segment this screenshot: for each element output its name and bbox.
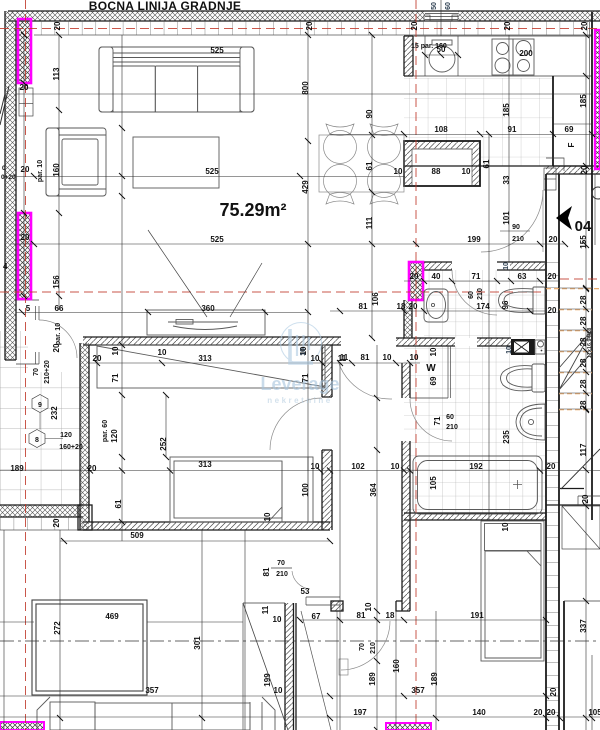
magenta hatch bottom — [386, 723, 431, 730]
svg-text:F: F — [567, 142, 576, 147]
svg-text:10: 10 — [501, 522, 510, 531]
bathtub — [413, 456, 542, 514]
orange dashed stair lines — [546, 289, 600, 410]
W niche wall — [410, 346, 451, 398]
svg-text:96: 96 — [501, 300, 510, 309]
svg-text:210: 210 — [276, 571, 288, 578]
svg-text:61: 61 — [114, 499, 123, 508]
svg-text:160+20: 160+20 — [59, 444, 83, 451]
svg-text:10: 10 — [263, 512, 272, 521]
svg-text:53: 53 — [301, 587, 310, 596]
svg-text:160: 160 — [52, 163, 61, 177]
svg-text:20: 20 — [548, 272, 557, 281]
svg-text:W: W — [426, 363, 436, 374]
tv leader lines — [148, 230, 262, 317]
bath south wall — [404, 513, 546, 520]
left wall jog with terrace door — [16, 300, 39, 364]
svg-text:20: 20 — [93, 354, 102, 363]
svg-text:20: 20 — [503, 21, 512, 30]
svg-text:20: 20 — [548, 306, 557, 315]
svg-text:60: 60 — [446, 414, 454, 421]
svg-text:28: 28 — [579, 379, 588, 388]
svg-text:28: 28 — [579, 316, 588, 325]
step mark 53 — [306, 597, 340, 605]
living-corridor door arc — [338, 361, 392, 399]
svg-text:18: 18 — [397, 302, 406, 311]
bottom-left door arc — [292, 571, 310, 589]
dining chairs — [324, 124, 357, 164]
kitchen island — [404, 141, 480, 186]
section marker circle — [592, 187, 600, 199]
svg-text:197: 197 — [353, 708, 367, 717]
svg-text:10: 10 — [391, 462, 400, 471]
svg-text:429: 429 — [301, 180, 310, 194]
corridor north wall segments / wc-bath wall — [396, 338, 511, 346]
svg-text:301: 301 — [193, 636, 202, 650]
svg-text:210: 210 — [477, 288, 484, 300]
svg-text:100: 100 — [301, 483, 310, 497]
svg-text:232: 232 — [50, 406, 59, 420]
svg-text:364: 364 — [369, 483, 378, 497]
svg-text:17x16,94/28: 17x16,94/28 — [587, 328, 593, 359]
watermark logo — [281, 323, 322, 364]
wc floor tiles — [424, 270, 545, 338]
svg-text:28: 28 — [579, 358, 588, 367]
svg-text:10: 10 — [506, 346, 513, 354]
svg-text:337: 337 — [579, 619, 588, 633]
bedroom south wall — [83, 522, 330, 530]
svg-text:101: 101 — [502, 211, 511, 225]
svg-text:313: 313 — [198, 460, 212, 469]
svg-text:117: 117 — [579, 443, 588, 456]
svg-text:69: 69 — [429, 376, 438, 385]
magenta column left 1 — [18, 19, 31, 83]
niche below column 1 — [19, 88, 33, 116]
svg-text:20: 20 — [549, 687, 558, 696]
kitchen east wall + fridge zone — [553, 12, 592, 166]
svg-text:10: 10 — [158, 348, 167, 357]
svg-text:525: 525 — [210, 235, 224, 244]
svg-text:33: 33 — [502, 175, 511, 184]
svg-text:71: 71 — [301, 373, 310, 382]
wall left of wc — [404, 300, 412, 338]
party wall with staircase — [546, 174, 559, 730]
svg-text:199: 199 — [263, 673, 272, 687]
svg-text:160: 160 — [392, 659, 401, 673]
bottom corridor door arc — [156, 333, 182, 359]
svg-text:469: 469 — [105, 612, 119, 621]
svg-text:81: 81 — [361, 353, 370, 362]
svg-text:189: 189 — [10, 464, 24, 473]
svg-text:20: 20 — [534, 708, 543, 717]
svg-text:Leverage: Leverage — [260, 374, 339, 394]
svg-text:70: 70 — [359, 643, 366, 651]
svg-text:252: 252 — [159, 437, 168, 451]
terrace tiles left — [0, 372, 83, 505]
svg-text:71: 71 — [111, 373, 120, 382]
svg-text:20: 20 — [549, 235, 558, 244]
svg-text:20: 20 — [581, 494, 590, 503]
svg-text:20: 20 — [88, 464, 97, 473]
svg-text:81: 81 — [359, 302, 368, 311]
svg-text:90: 90 — [512, 224, 520, 231]
svg-text:69: 69 — [565, 125, 574, 134]
svg-text:91: 91 — [508, 125, 517, 134]
svg-text:20: 20 — [20, 83, 29, 92]
svg-text:10: 10 — [364, 602, 373, 611]
corner cut diagonals — [0, 86, 9, 125]
bedroom east / corridor west wall — [322, 345, 332, 397]
corridor east wall segments — [396, 363, 410, 611]
kitchen floor tiles — [404, 78, 552, 166]
svg-text:par. 10: par. 10 — [37, 160, 44, 182]
svg-text:106: 106 — [371, 292, 380, 306]
terrace door arc — [39, 320, 77, 358]
kitchen counters outline — [413, 36, 592, 76]
svg-text:5: 5 — [26, 304, 31, 313]
wardrobe — [97, 345, 325, 388]
svg-text:525: 525 — [210, 46, 224, 55]
wc toilet — [499, 287, 546, 314]
svg-text:210: 210 — [512, 236, 524, 243]
svg-text:90: 90 — [365, 109, 374, 118]
top window in wall — [424, 14, 458, 22]
svg-text:20: 20 — [53, 21, 62, 30]
bedroom2 door arc — [341, 621, 390, 670]
svg-text:10: 10 — [111, 346, 120, 355]
entry north wall — [404, 158, 600, 190]
terrace couch bottom — [37, 697, 275, 730]
svg-text:10: 10 — [273, 615, 282, 624]
stair treads — [559, 288, 592, 409]
kitchen sink — [429, 40, 455, 72]
bath door arc — [410, 399, 452, 441]
svg-text:10: 10 — [274, 686, 283, 695]
svg-text:20: 20 — [52, 518, 61, 527]
centre axis dash-dot line — [0, 640, 600, 642]
svg-text:20: 20 — [21, 165, 30, 174]
svg-text:20: 20 — [410, 21, 419, 30]
svg-text:8: 8 — [35, 437, 39, 444]
svg-text:174: 174 — [476, 302, 490, 311]
svg-text:20: 20 — [305, 21, 314, 30]
svg-text:192: 192 — [469, 462, 483, 471]
svg-text:71: 71 — [472, 272, 481, 281]
left exterior wall (hatched) — [5, 11, 16, 360]
svg-text:200: 200 — [519, 49, 533, 58]
sofa — [99, 47, 254, 112]
svg-text:210+20: 210+20 — [44, 360, 51, 384]
svg-text:102: 102 — [351, 462, 365, 471]
right room top shape — [562, 506, 600, 549]
bedroom west wall — [80, 343, 89, 530]
svg-text:9: 9 — [38, 402, 42, 409]
svg-text:111: 111 — [365, 216, 374, 229]
svg-text:61: 61 — [482, 159, 491, 168]
svg-text:60: 60 — [445, 2, 452, 10]
svg-text:120: 120 — [110, 429, 119, 443]
armchair — [46, 128, 106, 196]
svg-text:10: 10 — [300, 348, 307, 356]
wc hand basin — [424, 289, 448, 322]
wc door arc — [452, 270, 497, 315]
washing machine (black) — [511, 339, 545, 355]
svg-text:800: 800 — [301, 81, 310, 95]
right room wall — [563, 601, 565, 730]
svg-text:0+20: 0+20 — [1, 174, 16, 181]
svg-text:357: 357 — [411, 686, 425, 695]
svg-text:nekretnine: nekretnine — [267, 396, 332, 405]
svg-text:75.29m²: 75.29m² — [219, 200, 286, 220]
magenta strip right edge — [595, 30, 600, 169]
svg-text:199: 199 — [467, 235, 481, 244]
svg-text:71: 71 — [433, 416, 442, 425]
svg-text:40: 40 — [432, 272, 441, 281]
svg-text:185: 185 — [502, 103, 511, 117]
svg-text:357: 357 — [145, 686, 159, 695]
magenta column left 2 — [18, 213, 31, 299]
top glazing band with mullions — [34, 21, 592, 35]
svg-text:28: 28 — [579, 295, 588, 304]
right exterior wall edge — [591, 166, 593, 520]
tv cabinet — [147, 310, 265, 335]
entry door arc — [481, 190, 543, 252]
svg-text:210: 210 — [446, 424, 458, 431]
magenta hatch bottom left — [0, 722, 44, 730]
svg-text:66: 66 — [55, 304, 64, 313]
svg-text:60: 60 — [468, 291, 475, 299]
svg-text:10: 10 — [311, 354, 320, 363]
svg-text:10: 10 — [503, 262, 510, 270]
svg-text:185: 185 — [579, 94, 588, 108]
dining table — [319, 135, 404, 192]
svg-text:50: 50 — [431, 2, 438, 10]
svg-text:108: 108 — [434, 125, 448, 134]
svg-text:par. 10: par. 10 — [55, 323, 62, 345]
svg-text:67: 67 — [312, 612, 321, 621]
svg-text:4: 4 — [3, 262, 8, 271]
svg-text:0: 0 — [2, 165, 6, 172]
bedroom1 door arc — [270, 398, 322, 450]
magenta column wc — [409, 262, 423, 300]
svg-text:11: 11 — [338, 354, 347, 363]
svg-text:191: 191 — [470, 611, 484, 620]
svg-text:70: 70 — [33, 368, 40, 376]
kitchen west wall piece — [404, 36, 413, 76]
svg-text:360: 360 — [201, 304, 215, 313]
stove — [492, 39, 534, 75]
svg-text:15 par. 160: 15 par. 160 — [411, 43, 447, 50]
bottom-left terrace wall + glazing — [0, 505, 92, 530]
coffee table — [133, 137, 219, 188]
svg-text:10: 10 — [394, 167, 403, 176]
svg-text:20: 20 — [21, 233, 30, 242]
stair lower flight — [560, 488, 584, 490]
bed 2 — [481, 521, 544, 661]
svg-text:156: 156 — [52, 275, 61, 289]
svg-text:105: 105 — [429, 476, 438, 490]
svg-text:113: 113 — [52, 67, 61, 80]
svg-text:20: 20 — [410, 272, 419, 281]
svg-text:509: 509 — [130, 531, 144, 540]
svg-text:189: 189 — [368, 672, 377, 686]
svg-text:20: 20 — [580, 21, 589, 30]
svg-text:10: 10 — [383, 353, 392, 362]
svg-text:155: 155 — [579, 235, 588, 249]
svg-text:28: 28 — [579, 400, 588, 409]
svg-text:235: 235 — [502, 430, 511, 444]
svg-text:525: 525 — [205, 167, 219, 176]
bathroom sink — [516, 404, 545, 440]
bathroom floor tiles — [404, 346, 545, 513]
svg-text:140: 140 — [472, 708, 486, 717]
terrace stair wall — [243, 603, 348, 730]
svg-text:BOCNA LINIJA GRADNJE: BOCNA LINIJA GRADNJE — [89, 0, 241, 13]
04 position arrow — [556, 206, 572, 230]
bed 1 — [170, 457, 313, 522]
svg-text:61: 61 — [365, 161, 374, 170]
svg-text:88: 88 — [432, 167, 441, 176]
svg-text:20: 20 — [409, 302, 418, 311]
svg-text:70: 70 — [277, 560, 285, 567]
svg-text:20: 20 — [547, 708, 556, 717]
terrace pier — [331, 601, 343, 611]
svg-text:189: 189 — [430, 672, 439, 686]
svg-text:10: 10 — [429, 347, 438, 356]
hexagon markers — [29, 395, 63, 448]
svg-text:313: 313 — [198, 354, 212, 363]
bedroom north wall y337-345 — [83, 337, 341, 345]
svg-text:120: 120 — [60, 432, 72, 439]
svg-text:10: 10 — [311, 462, 320, 471]
terrace furniture 469 — [32, 600, 147, 695]
svg-text:210: 210 — [370, 642, 377, 654]
bathroom toilet — [501, 364, 546, 392]
svg-text:81: 81 — [262, 567, 271, 576]
svg-text:105: 105 — [588, 708, 600, 717]
stair break lines — [559, 330, 592, 390]
svg-text:04: 04 — [575, 218, 592, 235]
svg-text:par. 60: par. 60 — [102, 420, 109, 442]
svg-text:272: 272 — [53, 621, 62, 635]
svg-text:10: 10 — [462, 167, 471, 176]
bedroom east wall lower part — [322, 450, 332, 530]
svg-text:10: 10 — [410, 353, 419, 362]
svg-text:11: 11 — [261, 605, 270, 614]
top exterior wall (hatched) — [8, 11, 600, 21]
svg-text:18: 18 — [386, 611, 395, 620]
wc top wall — [424, 262, 545, 270]
svg-text:20: 20 — [580, 165, 589, 174]
